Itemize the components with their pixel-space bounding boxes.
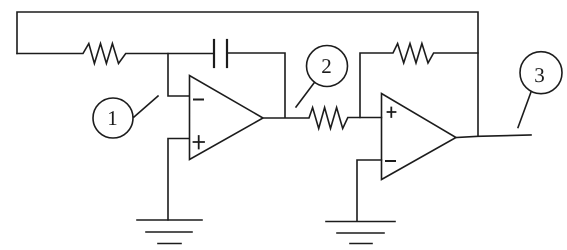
svg-text:2: 2	[321, 54, 332, 78]
svg-text:3: 3	[534, 63, 545, 87]
svg-text:1: 1	[107, 106, 118, 130]
